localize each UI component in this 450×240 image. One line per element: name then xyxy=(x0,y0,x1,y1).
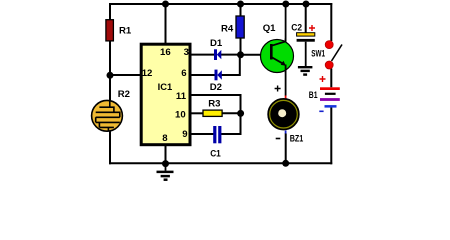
label battery plus xyxy=(320,76,326,82)
wire C1 to loop xyxy=(221,133,242,135)
wire pin11 loop xyxy=(191,95,241,134)
node junction top R4 xyxy=(237,1,244,8)
wire base Q1 xyxy=(241,54,272,56)
svg-text:BZ1: BZ1 xyxy=(290,133,304,144)
wire switch to battery xyxy=(330,69,332,88)
wire pin9 to C1 xyxy=(191,133,214,135)
diode D1 xyxy=(214,49,221,60)
node junction left rail R2 xyxy=(107,72,114,79)
wire right rail top xyxy=(330,3,332,41)
wire buzzer minus blue stub xyxy=(285,131,287,134)
buzzer BZ1 xyxy=(268,99,299,130)
node junction top Q1 collector xyxy=(282,1,289,8)
label buzzer minus xyxy=(276,138,281,140)
IC IC1 body xyxy=(141,44,190,145)
resistor R4 xyxy=(236,16,244,38)
svg-text:16: 16 xyxy=(160,47,171,58)
svg-text:D2: D2 xyxy=(210,82,222,93)
svg-text:C1: C1 xyxy=(210,148,221,159)
wire pin10 to R3 xyxy=(191,112,204,114)
wire pin3 to D1 xyxy=(191,54,215,56)
wire node to pin12 xyxy=(110,74,141,76)
wire D1 to node xyxy=(221,54,241,56)
node junction R3 loop xyxy=(237,110,244,117)
node junction top pin16 xyxy=(162,1,169,8)
wire Q1 emitter to buzzer xyxy=(285,66,287,96)
ground C2 xyxy=(298,42,313,75)
node junction buzzer rail xyxy=(282,160,289,167)
resistor R1 xyxy=(106,20,114,41)
wire pin16 drop xyxy=(165,4,167,45)
wire D2 to node xyxy=(222,56,240,76)
wire pin8 to ground xyxy=(165,141,167,163)
wire buzzer to bottom rail xyxy=(285,134,287,164)
svg-text:8: 8 xyxy=(162,133,168,144)
label buzzer plus xyxy=(275,86,281,92)
wire bottom rail xyxy=(109,162,332,164)
capacitor C2 xyxy=(297,33,315,42)
svg-text:R4: R4 xyxy=(221,23,234,34)
transistor Q1 xyxy=(261,39,294,73)
node junction diodes R4 base xyxy=(237,51,244,58)
wire top rail xyxy=(109,3,332,5)
wire buzzer plus red stub xyxy=(285,96,287,100)
battery B1 xyxy=(320,87,340,107)
node junction top C2 xyxy=(303,1,310,8)
svg-text:C2: C2 xyxy=(291,22,302,33)
svg-text:IC1: IC1 xyxy=(158,82,173,93)
ground main xyxy=(157,163,174,179)
svg-text:10: 10 xyxy=(175,109,186,120)
svg-text:R2: R2 xyxy=(118,89,130,100)
node junction ground rail xyxy=(162,160,169,167)
svg-text:B1: B1 xyxy=(309,90,318,101)
wire left rail xyxy=(109,3,111,164)
svg-text:12: 12 xyxy=(142,68,153,79)
switch SW1 xyxy=(325,41,342,69)
svg-text:3: 3 xyxy=(184,47,189,58)
svg-text:9: 9 xyxy=(182,129,187,140)
svg-text:Q1: Q1 xyxy=(263,23,276,34)
resistor R3 xyxy=(203,110,222,116)
svg-text:11: 11 xyxy=(176,91,187,102)
wire battery to bottom rail xyxy=(330,108,332,165)
wire R3 to node xyxy=(222,112,241,114)
wire pin6 to D2 xyxy=(191,74,215,76)
diode D2 xyxy=(215,70,222,81)
svg-text:6: 6 xyxy=(181,68,186,79)
svg-text:D1: D1 xyxy=(210,38,223,49)
wire Q1 collector xyxy=(285,4,287,42)
wire C2 column xyxy=(305,4,307,33)
label C2 plus xyxy=(309,25,315,31)
svg-text:SW1: SW1 xyxy=(311,48,325,59)
photoresistor R2 xyxy=(92,100,123,131)
svg-text:R1: R1 xyxy=(119,25,132,36)
label battery minus xyxy=(319,110,323,112)
wire R4 column xyxy=(240,4,242,55)
svg-text:R3: R3 xyxy=(208,98,220,109)
capacitor C1 xyxy=(213,126,221,143)
